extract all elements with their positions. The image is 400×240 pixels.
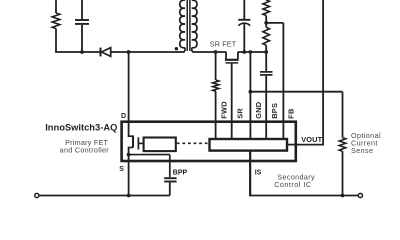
svg-text:BPS: BPS (270, 103, 279, 119)
svg-text:InnoSwitch3-AQ: InnoSwitch3-AQ (45, 122, 117, 132)
svg-text:IS: IS (255, 169, 262, 176)
svg-text:FB: FB (287, 108, 296, 118)
svg-text:S: S (119, 166, 124, 173)
svg-text:VOUT: VOUT (301, 135, 322, 144)
svg-text:FWD: FWD (220, 101, 229, 119)
svg-text:GND: GND (254, 101, 263, 119)
svg-text:Control IC: Control IC (274, 180, 311, 189)
svg-text:SR: SR (235, 108, 244, 119)
svg-text:D: D (121, 113, 126, 120)
svg-text:SR FET: SR FET (210, 40, 237, 49)
svg-text:BPP: BPP (173, 169, 188, 176)
svg-text:Sense: Sense (351, 146, 373, 155)
svg-text:and Controller: and Controller (60, 145, 110, 154)
